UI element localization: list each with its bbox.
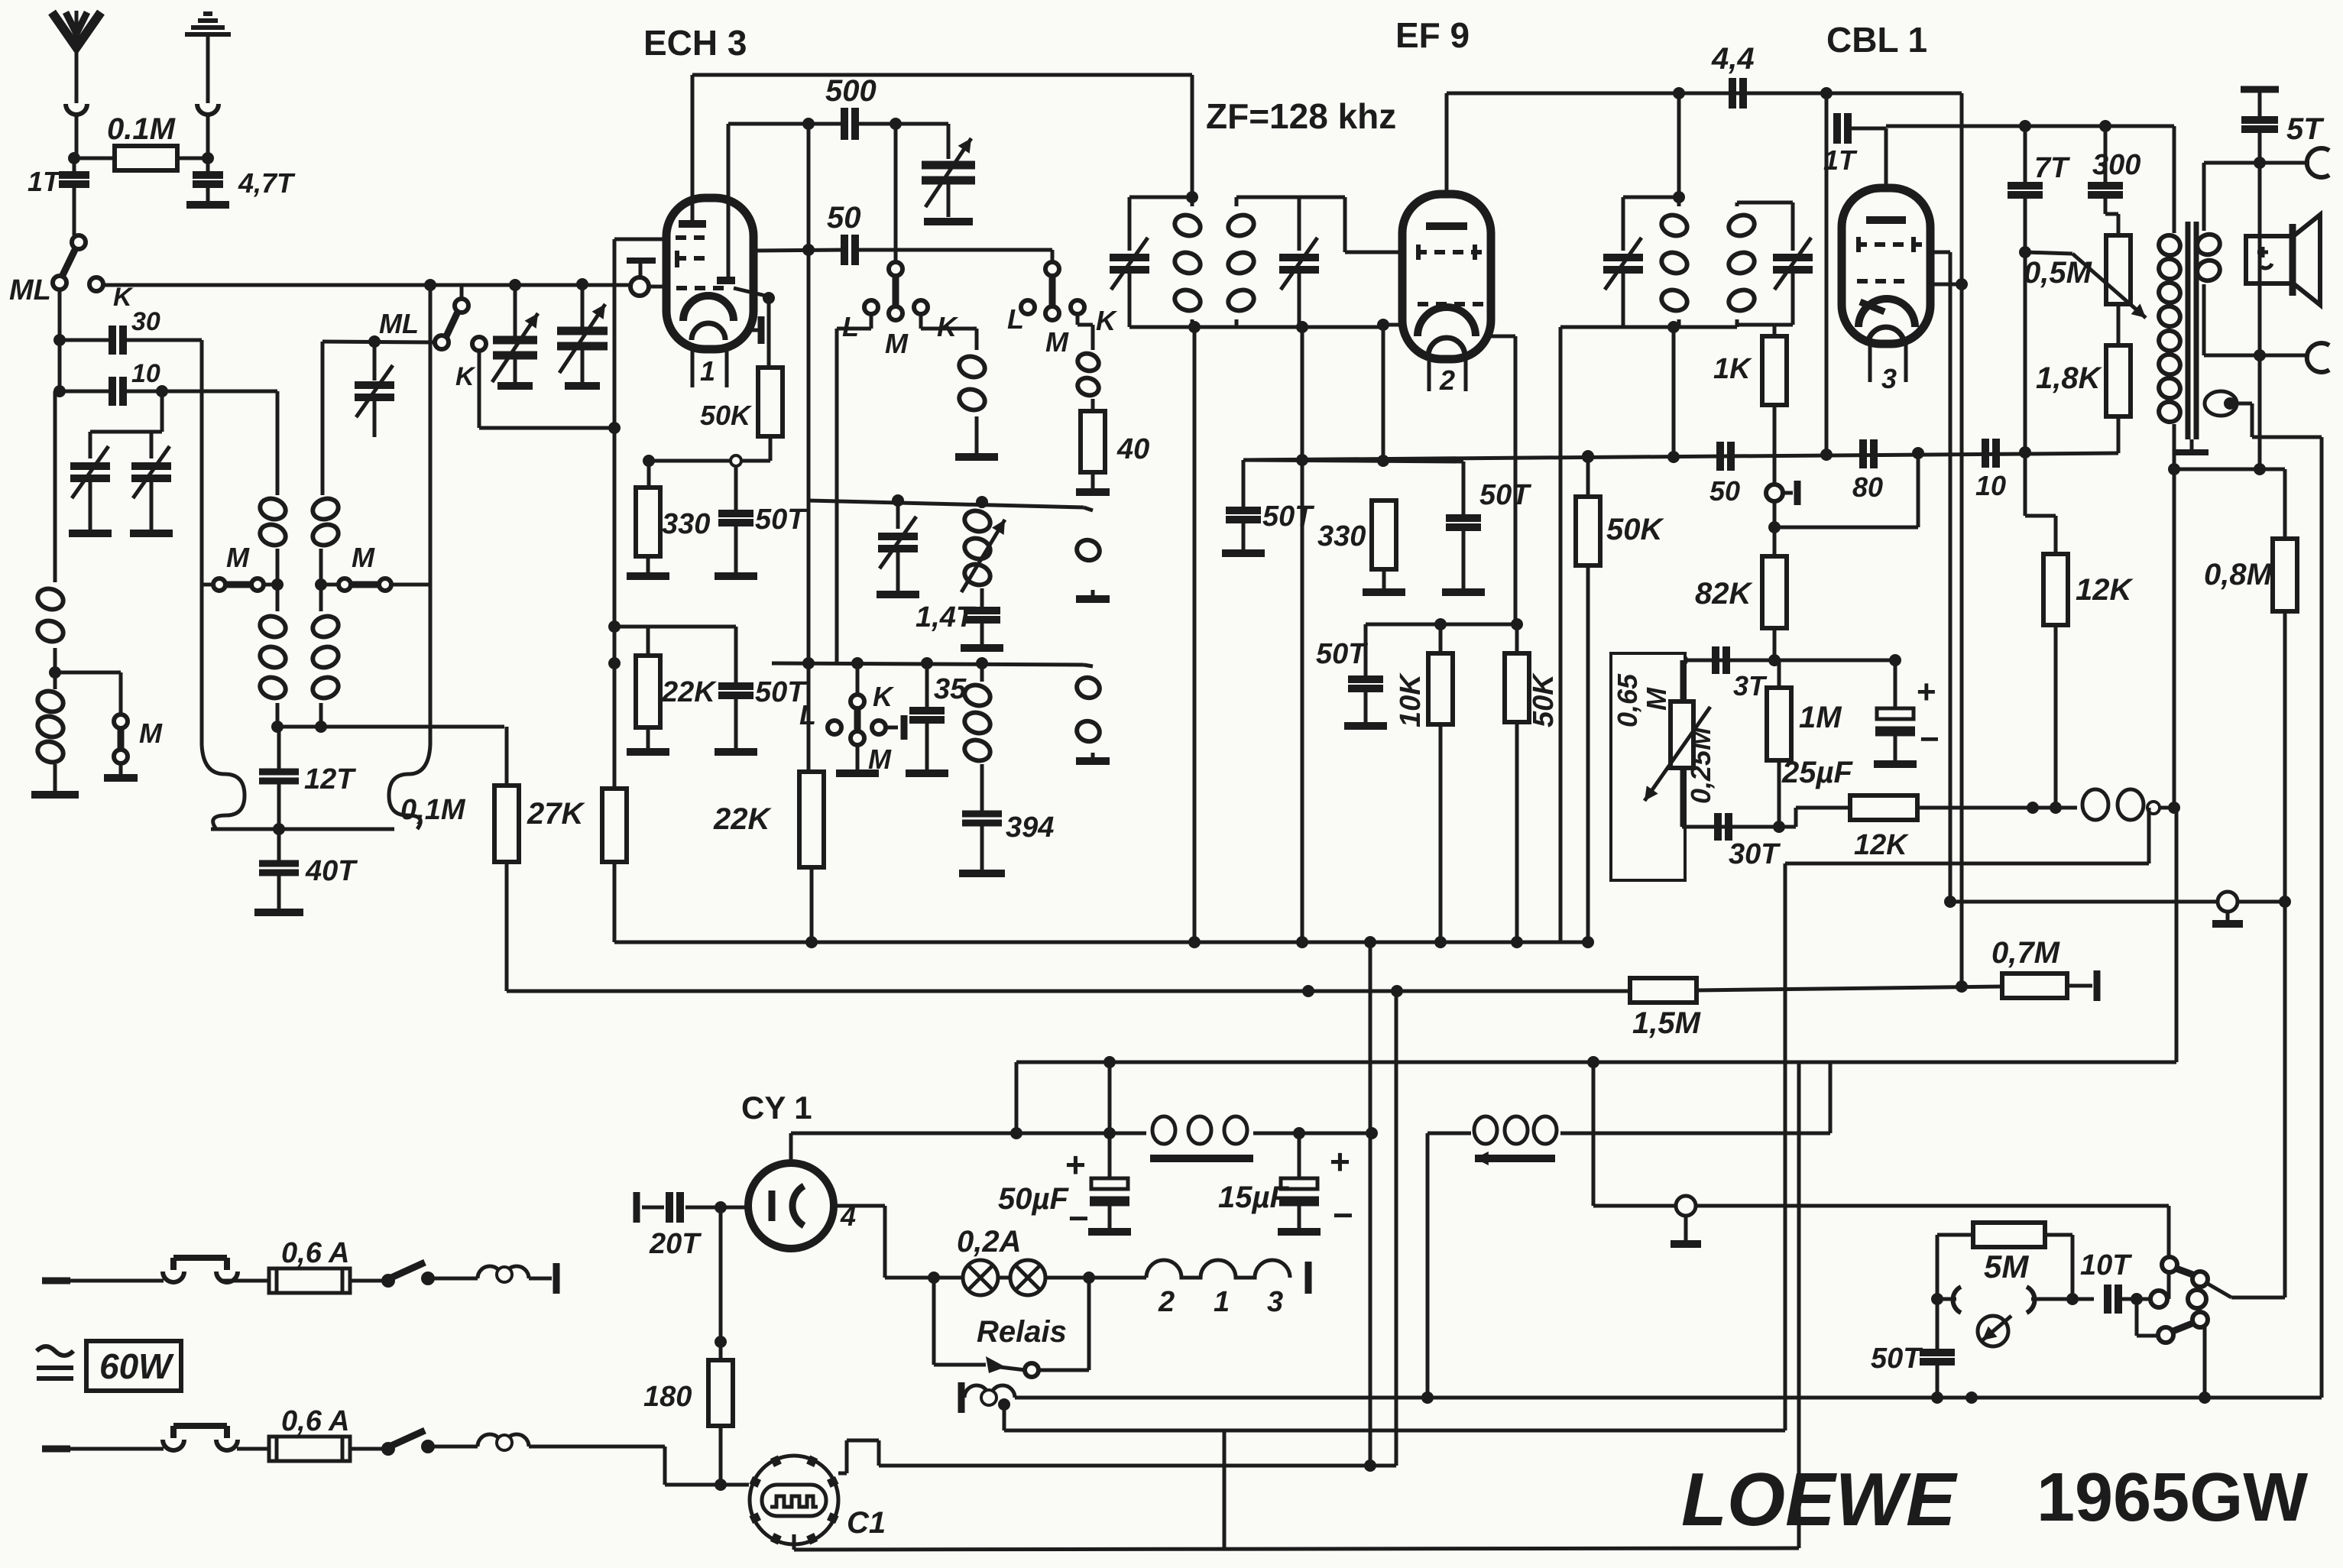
trimmer capacitor antenna 2 xyxy=(150,432,154,458)
capacitor 50T f xyxy=(1936,1299,1940,1351)
voltage selector plug top xyxy=(173,1255,227,1261)
ground xyxy=(104,774,138,782)
svg-text:M: M xyxy=(885,328,909,359)
svg-text:−: − xyxy=(1333,1195,1353,1235)
capacitor 15uF electrolytic xyxy=(1298,1133,1301,1177)
resistor 27K xyxy=(602,789,627,862)
switch gramophone xyxy=(2131,1293,2143,1305)
ground xyxy=(1442,588,1485,596)
output transformer secondary xyxy=(2202,163,2206,231)
svg-text:1T: 1T xyxy=(1823,144,1858,176)
svg-text:+: + xyxy=(1065,1145,1086,1184)
resistor 1M xyxy=(1778,660,1781,688)
pickup motor symbol xyxy=(1978,1316,2008,1346)
svg-text:300: 300 xyxy=(2092,149,2140,181)
switch bank L M K 2 xyxy=(1051,250,1055,263)
IFT1 primary rails xyxy=(1129,196,1192,199)
svg-text:82K: 82K xyxy=(1695,577,1753,611)
svg-text:3: 3 xyxy=(1881,363,1897,394)
wire frame bottom xyxy=(211,828,394,831)
coil K band xyxy=(957,353,987,380)
svg-text:330: 330 xyxy=(662,508,710,540)
svg-text:Relais: Relais xyxy=(977,1315,1067,1349)
choke filter 1 xyxy=(1152,1116,1175,1144)
ECH3 shield terminal xyxy=(627,258,656,264)
resistor 50K xyxy=(767,298,771,368)
svg-text:−: − xyxy=(1068,1198,1089,1238)
svg-text:50K: 50K xyxy=(700,400,753,431)
wire left rail ECH3 xyxy=(614,238,665,241)
resistor 40 xyxy=(1081,411,1105,472)
svg-text:25µF: 25µF xyxy=(1781,756,1854,789)
capacitor 4,7T xyxy=(206,158,210,174)
capacitor 30 xyxy=(60,339,112,342)
wire EF9 anode bus xyxy=(1447,92,1962,96)
wire cathode row 864 xyxy=(1682,659,1895,663)
svg-text:3T: 3T xyxy=(1733,670,1768,701)
resistor 5M bypass xyxy=(1936,1235,1940,1299)
svg-text:50T: 50T xyxy=(1316,638,1368,670)
CBL1 grid dashes 2 xyxy=(1857,279,1904,283)
svg-text:5T: 5T xyxy=(2286,112,2325,146)
wire right border rail xyxy=(2320,437,2324,1398)
wire 30T row xyxy=(1682,825,1796,829)
svg-text:10: 10 xyxy=(131,359,160,388)
resistor 1,5M xyxy=(1630,978,1696,1003)
EF9 pin stems and label 2 xyxy=(1428,359,1431,391)
IFT1 secondary trimmer xyxy=(1236,196,1299,199)
output transformer core xyxy=(2186,222,2191,439)
switch M link 2 xyxy=(321,583,340,587)
capacitor 20T xyxy=(634,1192,640,1223)
svg-text:CBL 1: CBL 1 xyxy=(1826,20,1927,60)
svg-text:EF 9: EF 9 xyxy=(1395,15,1470,55)
svg-text:10: 10 xyxy=(1975,470,2006,501)
resistor 180 xyxy=(719,1207,723,1360)
switch bank L M K 3 xyxy=(856,663,860,695)
capacitor 394 xyxy=(962,811,1002,818)
earth symbol xyxy=(185,32,231,37)
svg-text:1M: 1M xyxy=(1799,701,1842,734)
svg-text:15µF: 15µF xyxy=(1218,1181,1290,1214)
capacitor 50T a xyxy=(734,466,738,512)
trimmer capacitor mid xyxy=(373,342,377,381)
ground xyxy=(715,748,757,756)
svg-text:80: 80 xyxy=(1852,471,1883,503)
wire IFT1 bottom to bus xyxy=(1193,327,1197,942)
ECH3 anode bar xyxy=(679,220,706,228)
wire AVC rail 1704 xyxy=(1301,327,1304,942)
capacitor 10 xyxy=(60,390,112,394)
input coil pair lower xyxy=(258,613,288,640)
CBL1 cathode arc xyxy=(1859,299,1915,327)
svg-text:K: K xyxy=(113,283,134,312)
svg-text:3: 3 xyxy=(1267,1286,1283,1318)
ground xyxy=(627,748,669,756)
svg-text:1T: 1T xyxy=(28,166,62,197)
antenna coil upper xyxy=(53,391,57,582)
output transformer tap curl xyxy=(2205,391,2237,416)
IFT2 trimmer 2 xyxy=(1791,202,1795,251)
svg-text:20T: 20T xyxy=(649,1228,702,1260)
wire detector row xyxy=(1243,453,2118,460)
svg-text:50: 50 xyxy=(1709,475,1740,507)
wire CY1 output xyxy=(789,1133,793,1163)
svg-text:12K: 12K xyxy=(1854,829,1909,861)
wire rail 2354 xyxy=(1797,1062,1801,1548)
svg-text:10T: 10T xyxy=(2080,1249,2132,1281)
svg-text:27K: 27K xyxy=(527,797,585,831)
ground xyxy=(877,591,919,598)
svg-text:+: + xyxy=(1917,673,1936,711)
svg-text:0,25M: 0,25M xyxy=(1685,727,1716,804)
wire K to band switch xyxy=(102,283,430,287)
resistor 50K b xyxy=(1515,624,1519,653)
ground xyxy=(961,644,1003,652)
svg-text:0,2A: 0,2A xyxy=(957,1225,1022,1259)
wire CBL1 anode rail xyxy=(1960,93,1964,986)
switch contact K2 xyxy=(472,337,486,351)
IFT2 primary rail xyxy=(1623,196,1679,199)
ground xyxy=(130,530,173,537)
capacitor 12T xyxy=(277,727,281,770)
svg-text:12K: 12K xyxy=(2076,573,2134,607)
svg-text:K: K xyxy=(1096,305,1118,336)
wire screen row xyxy=(1366,623,1517,627)
svg-text:ZF=128 khz: ZF=128 khz xyxy=(1206,96,1396,136)
relay coil xyxy=(958,1382,965,1413)
svg-text:1965GW: 1965GW xyxy=(2037,1459,2308,1536)
svg-text:2: 2 xyxy=(1439,364,1455,396)
svg-text:ML: ML xyxy=(9,274,51,306)
svg-text:1,4T: 1,4T xyxy=(915,601,976,633)
resistor 82K xyxy=(1773,501,1777,556)
osc coupling coil M xyxy=(1084,665,1093,666)
resistor 50K c grid leak xyxy=(1586,456,1590,497)
band switch ML2 xyxy=(455,299,468,313)
voltage selector plug bottom xyxy=(173,1423,227,1429)
variable coil osc xyxy=(962,507,993,534)
wire C1 bottom xyxy=(792,1534,796,1550)
core ground bar xyxy=(2190,439,2194,449)
svg-text:M: M xyxy=(226,542,250,573)
svg-text:50T: 50T xyxy=(755,504,807,536)
wire grid long row xyxy=(430,283,630,287)
ground xyxy=(31,791,79,799)
svg-text:50T: 50T xyxy=(1262,501,1314,533)
CY1 anode arc xyxy=(792,1186,804,1226)
wire anode top row xyxy=(1886,125,2174,128)
wire ML down xyxy=(58,290,62,391)
wire bus 1390 xyxy=(1016,1061,2176,1064)
wire B+ row 1057 xyxy=(2027,802,2039,814)
capacitor 50T e xyxy=(1364,624,1368,678)
ground xyxy=(1874,760,1917,768)
wire IFT1 to EF9 grid xyxy=(1299,196,1345,199)
CBL1 grid cap circle xyxy=(1773,484,1777,501)
ground xyxy=(254,909,303,916)
choke core bar 1 xyxy=(1150,1155,1253,1162)
wire grid rail 2390 xyxy=(1825,128,1829,455)
ECH3 grid dashes 2 xyxy=(676,256,705,261)
svg-text:180: 180 xyxy=(643,1381,692,1413)
ground xyxy=(565,382,600,390)
svg-text:C1: C1 xyxy=(847,1506,886,1540)
wire anode bus top xyxy=(692,73,1192,77)
output transformer primary xyxy=(2173,126,2176,233)
wire 7T rail xyxy=(2024,196,2027,516)
wire ML row xyxy=(322,342,433,342)
switch ML/K antenna xyxy=(72,235,86,249)
svg-text:10K: 10K xyxy=(1395,672,1427,727)
CBL1 pin stems and label 3 xyxy=(1868,344,1872,382)
ground xyxy=(1076,757,1110,765)
svg-text:0,7M: 0,7M xyxy=(1991,936,2061,970)
mains choke bottom xyxy=(478,1434,529,1447)
capacitor 3T xyxy=(1712,646,1719,674)
wire K2 coil xyxy=(1076,313,1080,325)
ground xyxy=(836,769,879,777)
ECH3 grid row dashes xyxy=(676,286,724,290)
svg-text:CY 1: CY 1 xyxy=(741,1090,812,1126)
lamp 1 xyxy=(934,1276,963,1280)
capacitor 50T c xyxy=(1242,460,1246,509)
capacitor 5T xyxy=(2241,86,2279,93)
capacitor 30T xyxy=(1714,813,1722,841)
IFT2 secondary rail xyxy=(1737,201,1793,205)
svg-text:LOEWE: LOEWE xyxy=(1681,1457,1958,1541)
svg-text:ECH 3: ECH 3 xyxy=(643,23,747,63)
wire bus 1872 xyxy=(1004,1429,1785,1433)
wire heater bus 1829 xyxy=(1015,1396,2322,1400)
svg-text:330: 330 xyxy=(1317,520,1366,552)
switch lever lower xyxy=(2171,1323,2194,1332)
wire to 1T cap xyxy=(1825,93,1829,128)
ground xyxy=(1076,595,1110,603)
svg-text:50T: 50T xyxy=(1479,479,1531,511)
svg-text:500: 500 xyxy=(825,74,877,108)
switch mains bottom xyxy=(381,1442,395,1456)
capacitor 10 b xyxy=(1982,439,1989,468)
wire cathode bias row xyxy=(649,459,770,463)
wire 0,7M junction xyxy=(1956,980,1968,993)
resistor 1,8K xyxy=(2117,304,2121,345)
wire rail 1793 xyxy=(1369,942,1372,1466)
frame coil left side xyxy=(200,588,204,745)
tube C1 regulator xyxy=(750,1456,838,1544)
switch bank L M K 1 xyxy=(894,124,898,263)
tube CY1 xyxy=(748,1163,834,1249)
svg-text:1: 1 xyxy=(1214,1286,1230,1318)
ground xyxy=(1088,1228,1131,1236)
svg-text:22K: 22K xyxy=(661,676,717,708)
ground xyxy=(69,530,112,537)
switch lever upper xyxy=(2174,1268,2195,1275)
resistor 330 b xyxy=(1372,501,1396,569)
svg-text:M: M xyxy=(139,718,163,749)
wire to mid rail xyxy=(200,340,204,588)
svg-text:40T: 40T xyxy=(305,855,358,887)
CBL1 diode bar xyxy=(1860,302,1884,312)
wire CBL1 anode tap xyxy=(1930,283,1962,287)
svg-text:0,6 A: 0,6 A xyxy=(281,1405,349,1437)
ECH3 triode anode xyxy=(727,124,731,279)
svg-text:1,8K: 1,8K xyxy=(2036,361,2103,395)
svg-text:50T: 50T xyxy=(1871,1343,1923,1375)
svg-text:M: M xyxy=(1045,326,1069,358)
wire EF9 cathode lead xyxy=(1383,323,1405,327)
capacitor 50T d xyxy=(1462,462,1466,517)
antenna xyxy=(75,11,79,103)
input coil pair upper xyxy=(258,495,288,522)
IFT1 secondary coil xyxy=(1226,212,1256,238)
wire grid rail xyxy=(807,124,811,772)
ground xyxy=(497,382,533,390)
svg-text:ML: ML xyxy=(379,308,419,339)
capacitor 1,4T xyxy=(980,588,984,609)
shield box 0,65M xyxy=(1611,653,1685,880)
ground xyxy=(1363,588,1405,596)
svg-text:1: 1 xyxy=(700,355,715,387)
mains symbol xyxy=(37,1346,73,1356)
resistor 10K xyxy=(1439,624,1443,653)
svg-text:50: 50 xyxy=(827,201,861,235)
svg-text:50K: 50K xyxy=(1528,672,1560,727)
wire mains to C1 node xyxy=(663,1447,667,1485)
IFT2 primary coil xyxy=(1659,212,1690,238)
svg-text:+: + xyxy=(1330,1142,1350,1181)
relay contact xyxy=(934,1363,986,1367)
wire CBL1 grid top xyxy=(1884,128,1888,190)
tuning capacitor 1 xyxy=(514,285,517,336)
wire choke down xyxy=(2147,808,2151,863)
ECH3 grid cap circle xyxy=(630,277,649,296)
antenna coil lower xyxy=(35,688,66,714)
switch M antenna coil xyxy=(119,672,123,715)
CBL1 heater arc xyxy=(1868,327,1904,345)
capacitor 50uF electrolytic xyxy=(1108,1133,1112,1177)
svg-text:30T: 30T xyxy=(1729,838,1781,870)
wire coil feed xyxy=(321,342,325,495)
ECH3 cathode tap xyxy=(752,329,758,332)
coil K2 xyxy=(1075,351,1100,374)
potentiometer 0,25M xyxy=(1680,660,1684,701)
IFT2 bottom rail xyxy=(1560,326,1737,329)
lamp 2 xyxy=(998,1276,1010,1280)
capacitor 80 xyxy=(1859,439,1867,468)
wire rail 1827 xyxy=(1395,991,1398,1466)
capacitor 7T xyxy=(2024,126,2027,184)
wire lever to rail xyxy=(2208,1284,2231,1297)
choke core bar 2 xyxy=(1475,1155,1555,1162)
CBL1 anode bar xyxy=(1866,216,1906,224)
wire CBL1 screen lead xyxy=(1930,251,1950,254)
ECH3 grid dashes xyxy=(676,235,705,240)
ground xyxy=(1076,488,1110,496)
chassis connector mid xyxy=(1676,1196,1696,1216)
svg-text:4,7T: 4,7T xyxy=(238,167,296,199)
EF9 cathode arc xyxy=(1418,307,1476,336)
svg-text:50µF: 50µF xyxy=(998,1182,1070,1216)
wire rail 2042 xyxy=(1559,327,1563,942)
wire bus 1233 xyxy=(614,941,1588,944)
pickup connector xyxy=(1937,1297,1956,1301)
tube CBL1 xyxy=(1842,188,1930,344)
svg-text:60W: 60W xyxy=(99,1346,174,1386)
svg-text:1,5M: 1,5M xyxy=(1632,1006,1702,1040)
capacitor 1T b xyxy=(1833,113,1841,144)
pot wiper arrow xyxy=(2025,252,2072,254)
wire rail 2190 xyxy=(1672,327,1676,457)
wire bus 1918 xyxy=(879,1464,1396,1468)
wire AVC row 1180 xyxy=(1950,900,2285,904)
svg-text:K: K xyxy=(873,681,895,712)
EF9 grid dashes 2 xyxy=(1418,302,1483,306)
IFT1 trimmer xyxy=(1128,197,1132,251)
wire jack bottom row xyxy=(2204,354,2309,358)
capacitor 50T b xyxy=(734,627,738,685)
tube ECH3 xyxy=(666,198,753,349)
bottom right network wire 1578 xyxy=(1592,1062,1596,1206)
ECH3 pin stems and label 1 xyxy=(691,349,695,387)
ground xyxy=(627,572,669,580)
capacitor 35 xyxy=(925,663,929,709)
CBL1 grid dashes xyxy=(1856,242,1922,247)
choke HF xyxy=(2082,789,2108,820)
mains input bottom xyxy=(42,1446,70,1453)
EF9 heater arc xyxy=(1428,338,1465,356)
EF9 anode bar xyxy=(1426,222,1467,230)
padder variable capacitor xyxy=(947,124,951,159)
speaker voice coil line xyxy=(2258,163,2262,469)
svg-text:0,65: 0,65 xyxy=(1612,673,1643,727)
svg-text:22K: 22K xyxy=(713,802,772,836)
svg-text:2: 2 xyxy=(1158,1286,1175,1318)
ground xyxy=(906,769,948,777)
ground xyxy=(955,453,998,461)
switch M link 1 xyxy=(202,583,215,587)
wire right rail down xyxy=(429,285,433,745)
wire C1 right xyxy=(838,1472,847,1476)
tuning capacitor 2 xyxy=(581,284,585,327)
IFT2 secondary coil xyxy=(1726,212,1757,238)
trimmer capacitor antenna 1 xyxy=(89,432,92,458)
choke filter 2 xyxy=(1428,1132,1471,1136)
ECH3 cathode arc xyxy=(683,296,734,321)
svg-text:L: L xyxy=(1007,303,1024,335)
svg-text:40: 40 xyxy=(1116,433,1149,465)
headphone jack top xyxy=(2307,148,2329,177)
svg-text:35: 35 xyxy=(934,673,967,705)
wire CY1 heater right xyxy=(834,1204,885,1208)
ground xyxy=(715,572,757,580)
wire trimmer feed xyxy=(160,391,164,432)
antenna plug socket xyxy=(66,104,87,115)
wire K coil xyxy=(919,313,923,329)
potentiometer 0,5M xyxy=(2106,235,2131,304)
resistor 330 xyxy=(647,461,651,488)
wire IFT1 bottom row xyxy=(1129,326,1383,329)
IFT1 primary coil xyxy=(1191,197,1194,206)
loudspeaker xyxy=(2246,236,2293,283)
earth plug socket xyxy=(197,104,219,115)
ground xyxy=(924,218,973,225)
ground xyxy=(1278,1228,1321,1236)
svg-text:L: L xyxy=(799,699,816,731)
resistor 0.1M xyxy=(115,146,177,170)
osc coupling coil K xyxy=(1084,507,1093,510)
ground xyxy=(959,870,1005,877)
